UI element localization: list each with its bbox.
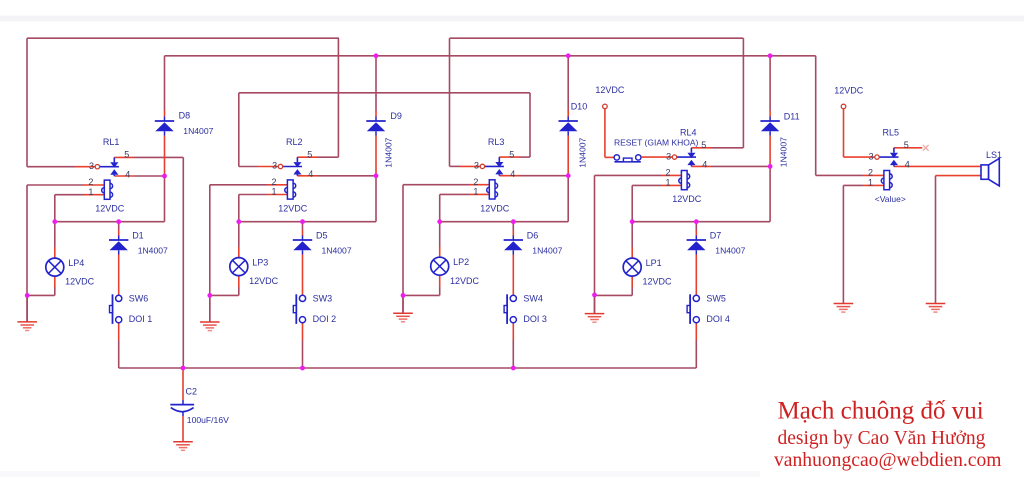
svg-text:RL4: RL4 — [680, 128, 697, 138]
capacitor C2 100uF/16V — [170, 400, 194, 416]
svg-text:4: 4 — [308, 169, 313, 179]
wire lamp LP3 bottom to ground column — [210, 294, 239, 296]
svg-text:design by Cao Văn Hưởng: design by Cao Văn Hưởng — [778, 428, 986, 449]
wire D9 column from cathode rail — [375, 56, 377, 111]
wire lamp rail block 1 — [55, 221, 165, 223]
wire RL2 pin 4 to D9 junction — [297, 175, 317, 177]
svg-text:C2: C2 — [186, 387, 198, 397]
svg-text:1: 1 — [868, 177, 873, 187]
wire C2 to ground — [182, 416, 184, 442]
wire D11 column from cathode rail — [769, 56, 771, 111]
speaker LS1 — [981, 158, 999, 186]
junction ground node block4 — [592, 293, 597, 298]
pushbutton switch SW6 (DOI 1) — [110, 294, 122, 324]
svg-text:2: 2 — [473, 177, 478, 187]
junction lamp rail LP2 — [437, 219, 442, 224]
svg-text:12VDC: 12VDC — [65, 277, 95, 287]
relay RL3 contact (pins 3/4/5) — [480, 157, 504, 176]
wire RL1 pin 5 to bottom bus — [114, 156, 134, 158]
pushbutton switch SW3 (DOI 2) — [293, 294, 305, 324]
wire 12VDC to RESET switch — [604, 109, 606, 158]
svg-text:5: 5 — [509, 149, 514, 159]
wire RL1 pin 4 to D8 junction — [114, 175, 134, 177]
wire RL4 pin 4 to D11 junction — [691, 165, 711, 167]
wire RL5 coil pin 2 (from diode rail drop) — [816, 174, 863, 176]
svg-text:D10: D10 — [571, 101, 588, 111]
wire pin-4 junction down to lamp rail (D10) — [567, 176, 569, 222]
svg-text:DOI 1: DOI 1 — [129, 314, 153, 324]
diode D10 (1N4007) — [559, 117, 578, 136]
svg-text:SW3: SW3 — [313, 294, 333, 304]
pushbutton switch SW4 (DOI 3) — [504, 294, 516, 324]
svg-text:12VDC: 12VDC — [95, 204, 125, 214]
ground RL5 coil — [834, 304, 854, 313]
wire switch bottom lead to bus (D1 column) — [118, 323, 120, 340]
wire net B left vertical drop to RL2 pin 3 — [238, 93, 240, 167]
diode D6 (1N4007) — [504, 236, 523, 255]
svg-text:Mạch chuông đố vui: Mạch chuông đố vui — [778, 398, 984, 425]
junction lamp rail LP4 — [52, 219, 57, 224]
svg-text:RL3: RL3 — [488, 137, 505, 147]
svg-text:100uF/16V: 100uF/16V — [187, 415, 229, 425]
wire pin-4 junction down to lamp rail (D9) — [375, 176, 377, 222]
svg-text:RL1: RL1 — [103, 137, 120, 147]
lamp LP3 12VDC — [230, 258, 248, 276]
svg-text:5: 5 — [307, 150, 312, 160]
wire D8 column from cathode rail — [164, 56, 166, 111]
power node 12VDC at RL4 (RESET) — [603, 104, 608, 109]
svg-text:D9: D9 — [390, 111, 402, 121]
wire RL1 coil pin 2 to ground column — [27, 184, 84, 186]
wire net A1 left vertical drop to RL1 pin 3 — [26, 38, 28, 167]
wire RL3 coil pin 2 to ground column — [403, 184, 469, 186]
ground speaker — [926, 304, 946, 313]
svg-text:D6: D6 — [527, 230, 539, 240]
wire net B mid horizontal (RL3 pin5 to RL2 pin3) — [239, 92, 530, 94]
svg-text:2: 2 — [88, 177, 93, 187]
svg-text:RL5: RL5 — [883, 128, 900, 138]
ground block3 — [393, 313, 413, 322]
wire D10 anode to relay pin-4 junction — [567, 136, 569, 176]
wire switch bottom lead to bus (D7 column) — [695, 323, 697, 340]
svg-text:1N4007: 1N4007 — [778, 137, 788, 167]
svg-text:12VDC: 12VDC — [278, 204, 308, 214]
junction on diode rail at D9 — [374, 53, 379, 58]
svg-text:D7: D7 — [710, 230, 722, 240]
wire switch bottom lead to bus (D5 column) — [302, 323, 304, 340]
svg-text:12VDC: 12VDC — [595, 85, 625, 95]
wire bottom bus (switch commons to C2) — [119, 367, 697, 369]
wire net A1 right vertical drop to RL2 pin 5 — [337, 38, 339, 157]
wire lamp LP2 bottom lead — [439, 276, 441, 287]
junction lamp rail D5 — [300, 219, 305, 224]
wire to RL2 pin 3 — [239, 166, 258, 168]
wire RL2 pin 5 — [297, 156, 317, 158]
wire D10 column from cathode rail — [567, 56, 569, 111]
wire lamp rail block 2 — [239, 221, 376, 223]
faint scan artifact band top — [0, 16, 1024, 22]
svg-text:5: 5 — [904, 140, 909, 150]
svg-text:RL2: RL2 — [286, 137, 303, 147]
junction bus / C2 / RL1 pin5 — [181, 366, 186, 371]
svg-text:LP1: LP1 — [646, 258, 662, 268]
svg-text:5: 5 — [701, 140, 706, 150]
svg-text:12VDC: 12VDC — [643, 277, 673, 287]
junction lamp rail D6 — [511, 219, 516, 224]
wire RL4 pin 5 — [691, 147, 711, 149]
svg-text:3: 3 — [869, 151, 874, 161]
svg-text:12VDC: 12VDC — [450, 276, 480, 286]
junction RL4 pin4 / D11 — [768, 164, 773, 169]
wire net B right vertical drop to RL3 pin 5 — [529, 93, 531, 157]
svg-text:DOI 2: DOI 2 — [313, 314, 337, 324]
relay RL4 contact (pins 3/4/5) — [672, 148, 696, 167]
relay RL5 coil (pins 1/2) — [881, 171, 892, 190]
pushbutton switch SW5 (DOI 4) — [687, 294, 699, 324]
wire lamp rail block 3 — [440, 221, 569, 223]
svg-text:D5: D5 — [316, 230, 328, 240]
wire lamp LP1 top lead — [631, 222, 633, 247]
svg-text:1: 1 — [88, 187, 93, 197]
svg-text:vanhuongcao@webdien.com: vanhuongcao@webdien.com — [774, 450, 1002, 471]
junction bus / SW3 — [300, 366, 305, 371]
svg-text:1N4007: 1N4007 — [577, 137, 587, 167]
junction lamp rail LP3 — [236, 219, 241, 224]
wire ground stem block LP3 — [209, 295, 211, 322]
svg-text:RESET (GIAM KHOA): RESET (GIAM KHOA) — [614, 137, 699, 147]
wire RL3 pin 5 — [499, 156, 519, 158]
wire RL2 coil pin 1 to lamp rail — [239, 194, 267, 196]
svg-text:1N4007: 1N4007 — [384, 137, 394, 167]
relay RL2 contact (pins 3/4/5) — [278, 157, 302, 176]
wire D1 anode lead to switch — [118, 255, 120, 296]
svg-text:D8: D8 — [179, 111, 191, 121]
svg-text:1N4007: 1N4007 — [322, 246, 352, 256]
wire RL2 coil pin 2 to ground column — [210, 184, 267, 186]
svg-text:LS1: LS1 — [986, 150, 1002, 160]
junction RL3 pin4 / D10 — [566, 173, 571, 178]
relay RL1 coil (pins 1/2) — [102, 180, 113, 199]
svg-text:DOI 4: DOI 4 — [706, 314, 730, 324]
ground C2 — [173, 442, 193, 451]
wire switch bottom lead to bus (D6 column) — [512, 323, 514, 340]
wire net A2 top horizontal (RL4 pin5 to RL3 pin3) — [450, 37, 744, 39]
svg-text:SW4: SW4 — [523, 294, 543, 304]
svg-text:12VDC: 12VDC — [480, 203, 510, 213]
wire D6 anode lead to switch — [512, 255, 514, 296]
pushbutton switch RESET (GIAM KHOA) — [614, 155, 641, 162]
diode D8 (1N4007) — [155, 117, 174, 136]
wire D8 anode to relay pin-4 junction — [164, 136, 166, 177]
diode D9 (1N4007) — [366, 117, 385, 136]
svg-text:1N4007: 1N4007 — [183, 126, 213, 136]
relay RL5 contact (pins 3/4/5) — [875, 148, 899, 167]
wire lamp rail block 4 — [632, 221, 770, 223]
svg-text:4: 4 — [702, 160, 707, 170]
diode D7 (1N4007) — [687, 236, 706, 255]
relay RL3 coil (pins 1/2) — [487, 180, 498, 199]
wire D6 cathode lead from lamp rail — [512, 222, 514, 230]
wire 12VDC to RL5 pin 3 — [843, 109, 845, 157]
svg-text:LP2: LP2 — [453, 257, 469, 267]
wire lamp LP1 bottom lead — [631, 276, 633, 287]
wire rail right drop to RL5 coil pin 2 — [815, 56, 817, 176]
svg-text:3: 3 — [474, 161, 479, 171]
svg-text:1: 1 — [473, 187, 478, 197]
wire RL3 pin 4 to D10 junction — [499, 175, 519, 177]
ground block4 — [585, 314, 605, 323]
svg-text:3: 3 — [666, 151, 671, 161]
power node 12VDC at RL5 — [841, 104, 846, 109]
wire D5 cathode lead from lamp rail — [302, 222, 304, 230]
no-connect X at RL5 pin 5 — [923, 145, 929, 151]
ground block1 — [17, 322, 37, 331]
svg-text:4: 4 — [510, 169, 515, 179]
svg-text:1N4007: 1N4007 — [532, 246, 562, 256]
svg-text:2: 2 — [665, 168, 670, 178]
lamp LP1 12VDC — [623, 258, 641, 276]
svg-text:2: 2 — [271, 177, 276, 187]
junction ground node block2 — [207, 293, 212, 298]
diode D11 (1N4007) — [760, 117, 779, 136]
wire pin-4 junction down to lamp rail (D11) — [769, 166, 771, 221]
svg-text:2: 2 — [868, 168, 873, 178]
wire ground stem block LP2 — [402, 295, 404, 313]
wire RL4 coil pin 1 to lamp rail — [632, 184, 661, 186]
junction on diode rail at D10 — [566, 53, 571, 58]
junction on diode rail at D11 — [768, 53, 773, 58]
wire to RL1 pin 3 — [27, 166, 75, 168]
wire lamp LP2 bottom to ground column — [403, 294, 440, 296]
junction RL2 pin4 / D9 — [374, 173, 379, 178]
relay RL1 contact (pins 3/4/5) — [95, 157, 119, 176]
svg-text:12VDC: 12VDC — [672, 194, 702, 204]
junction lamp rail LP1 — [630, 219, 635, 224]
wire D7 cathode lead from lamp rail — [695, 222, 697, 230]
wire lamp LP3 top lead — [238, 222, 240, 247]
wire bus to capacitor C2 — [182, 368, 184, 390]
wire lamp LP3 bottom lead — [238, 276, 240, 287]
svg-text:D11: D11 — [784, 112, 800, 122]
lamp LP4 12VDC — [46, 258, 64, 276]
svg-text:1: 1 — [665, 177, 670, 187]
wire D9 anode to relay pin-4 junction — [375, 136, 377, 176]
wire RL4 coil pin 2 to ground column — [595, 174, 662, 176]
svg-text:12VDC: 12VDC — [249, 276, 279, 286]
svg-text:LP4: LP4 — [68, 258, 84, 268]
svg-text:SW6: SW6 — [129, 294, 149, 304]
svg-text:1: 1 — [271, 187, 276, 197]
relay RL4 coil (pins 1/2) — [679, 171, 690, 190]
ground block2 — [200, 322, 220, 331]
svg-text:3: 3 — [272, 161, 277, 171]
wire net A1 top horizontal (RL2 pin5 to RL1 pin3) — [27, 37, 339, 39]
wire to RL3 pin 3 — [450, 165, 461, 167]
svg-text:3: 3 — [89, 161, 94, 171]
wire net A2 left vertical drop to RL3 pin 3 — [449, 38, 451, 166]
svg-text:1N4007: 1N4007 — [138, 246, 168, 256]
wire RL5 pin 4 to speaker — [894, 165, 913, 167]
wire lamp LP4 top lead — [54, 222, 56, 247]
wire speaker return to ground — [936, 175, 982, 177]
wire ground stem block LP4 — [26, 295, 28, 322]
wire net A2 right vertical drop to RL4 pin 5 — [742, 38, 744, 148]
wire lamp LP4 bottom to ground column — [27, 294, 55, 296]
diode D1 (1N4007) — [109, 236, 128, 255]
wire RESET switch to RL4 pin 3 — [641, 156, 672, 158]
wire pin-4 junction down to lamp rail (D8) — [164, 176, 166, 222]
wire lamp LP4 bottom lead — [54, 276, 56, 287]
svg-text:1N4007: 1N4007 — [715, 246, 745, 256]
junction lamp rail D1 — [116, 219, 121, 224]
svg-text:DOI 3: DOI 3 — [523, 314, 547, 324]
svg-text:4: 4 — [905, 160, 910, 170]
junction RL1 pin4 / D8 — [162, 174, 167, 179]
wire RL3 coil pin 1 to lamp rail — [440, 193, 469, 195]
wire ground stem block LP1 — [594, 295, 596, 313]
wire diode cathode rail horizontal (D8 D9 D10 D11 to RL5 coil) — [165, 55, 816, 57]
relay RL2 coil (pins 1/2) — [285, 180, 296, 199]
svg-text:4: 4 — [125, 169, 130, 179]
wire D7 anode lead to switch — [695, 255, 697, 296]
svg-text:LP3: LP3 — [252, 257, 268, 267]
svg-text:SW5: SW5 — [706, 294, 726, 304]
wire D1 cathode lead from lamp rail — [118, 222, 120, 230]
junction ground node block3 — [401, 293, 406, 298]
wire lamp LP2 top lead — [439, 222, 441, 247]
svg-text:12VDC: 12VDC — [834, 85, 864, 95]
faint scan artifact band bottom — [0, 471, 760, 477]
diode D5 (1N4007) — [293, 236, 312, 255]
junction lamp rail D7 — [694, 219, 699, 224]
wire RL5 coil pin 1 to ground — [843, 184, 863, 186]
wire D11 anode to relay pin-4 junction — [769, 136, 771, 167]
junction ground node block1 — [25, 293, 30, 298]
wire RL1 coil pin 1 to lamp rail — [55, 194, 84, 196]
svg-text:5: 5 — [124, 150, 129, 160]
svg-text:D1: D1 — [132, 230, 144, 240]
wire lamp LP1 bottom to ground column — [595, 294, 633, 296]
svg-text:<Value>: <Value> — [875, 194, 906, 204]
wire D5 anode lead to switch — [302, 255, 304, 296]
wire RL5 pin 5 (open) — [894, 147, 922, 149]
junction bus / SW4 — [511, 366, 516, 371]
lamp LP2 12VDC — [431, 257, 449, 275]
